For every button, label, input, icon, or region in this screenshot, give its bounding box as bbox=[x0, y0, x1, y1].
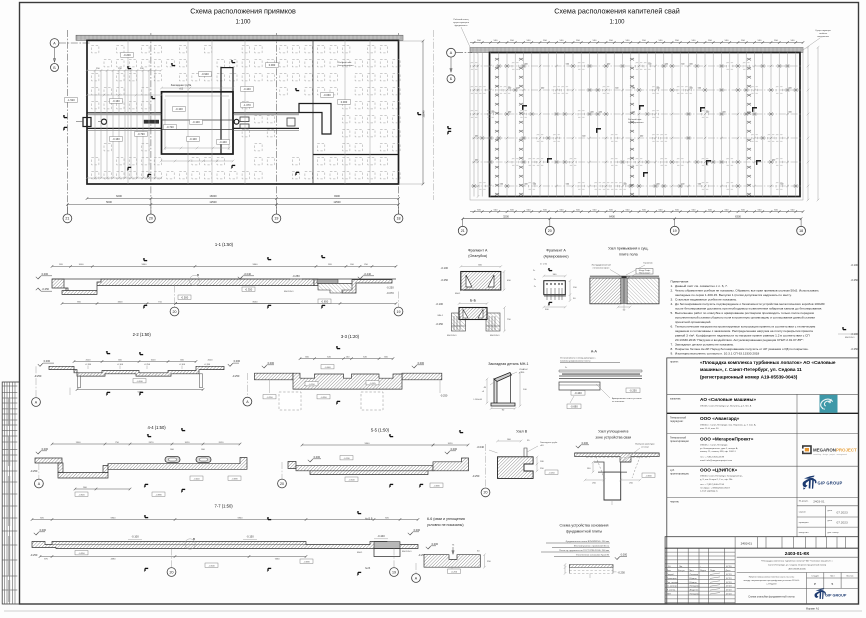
svg-text:500: 500 bbox=[640, 136, 643, 138]
dim line row 2 bbox=[67, 204, 398, 206]
right plan outline thick bbox=[490, 53, 801, 197]
А-А bars bbox=[562, 374, 640, 375]
svg-text:-0.440: -0.440 bbox=[364, 272, 372, 276]
svg-text:5-5 (1:50): 5-5 (1:50) bbox=[371, 428, 390, 433]
svg-text:-0.100: -0.100 bbox=[179, 364, 186, 366]
svg-text:-0.040: -0.040 bbox=[244, 272, 252, 276]
svg-text:500: 500 bbox=[566, 64, 569, 66]
trench left circle bbox=[101, 119, 106, 124]
svg-text:Лебедева: Лебедева bbox=[690, 594, 701, 596]
section 1-1 level marks bbox=[36, 277, 40, 279]
svg-text:между сверхмощными центрифугам: между сверхмощными центрифугами устан-ми… bbox=[744, 579, 800, 582]
svg-text:выпустил: выпустил bbox=[799, 532, 809, 534]
svg-text:суб.: суб. bbox=[670, 468, 675, 472]
svg-text:-0.940: -0.940 bbox=[201, 72, 209, 76]
svg-text:нагружение: нагружение bbox=[817, 36, 830, 38]
svg-text:не показано: не показано bbox=[612, 401, 625, 403]
svg-text:равной 3 т/м². Коэффициент над: равной 3 т/м². Коэффициент надежности по… bbox=[675, 334, 810, 338]
svg-text:Кол.уч: Кол.уч bbox=[678, 570, 685, 572]
section 1-1 slab hatched body bbox=[52, 279, 314, 294]
svg-text:2-2 (1:50): 2-2 (1:50) bbox=[133, 332, 152, 337]
svg-text:фундамента: фундамента bbox=[455, 24, 468, 27]
svg-text:1020: 1020 bbox=[185, 442, 191, 444]
svg-text:-1.070: -1.070 bbox=[243, 103, 251, 107]
стадия лист листов bbox=[823, 573, 825, 589]
svg-text:0.000: 0.000 bbox=[418, 361, 425, 365]
axis 18 vertical dash-dot bbox=[398, 33, 400, 214]
sparse tiny labels right plan bbox=[475, 64, 792, 186]
interior column lines bbox=[127, 40, 129, 184]
svg-text:-0.070: -0.070 bbox=[386, 291, 394, 295]
svg-text:-0.920: -0.920 bbox=[78, 494, 85, 496]
svg-text:помещ. 11, помещ. 636, оф. 100: помещ. 11, помещ. 636, оф. 1002-1 bbox=[700, 450, 736, 453]
svg-text:Фрагмент А: Фрагмент А bbox=[468, 249, 488, 253]
svg-text:21: 21 bbox=[461, 229, 465, 233]
армирование cut symbols bbox=[548, 268, 550, 271]
section 3-3 left thin slab bbox=[255, 373, 294, 380]
left edge pit opening bbox=[83, 118, 91, 127]
svg-text:-0.250: -0.250 bbox=[851, 278, 859, 282]
svg-text:196105, Санкт-Петербург, ул. В: 196105, Санкт-Петербург, ул. Ватутина, д… bbox=[700, 405, 752, 408]
svg-text:0.000: 0.000 bbox=[451, 447, 458, 451]
узел примыкания drawing bbox=[590, 278, 621, 304]
svg-text:-0.440: -0.440 bbox=[574, 391, 582, 395]
svg-text:Узел уплощения в: Узел уплощения в bbox=[598, 430, 628, 434]
svg-text:0.000: 0.000 bbox=[432, 542, 439, 546]
existing foundation hatched band (top) bbox=[76, 35, 403, 40]
svg-text:-0.440: -0.440 bbox=[243, 87, 251, 91]
title block outer bbox=[667, 358, 859, 604]
svg-text:GIP GROUP: GIP GROUP bbox=[825, 594, 847, 598]
svg-text:13840: 13840 bbox=[422, 110, 426, 118]
svg-text:-0.250: -0.250 bbox=[851, 347, 859, 351]
svg-text:заданием и согласованы с заказ: заданием и согласованы с заказчиком. Рас… bbox=[675, 329, 813, 333]
svg-text:L100х10: L100х10 bbox=[474, 399, 483, 401]
svg-text:Технологические нагрузки на пр: Технологические нагрузки на проектируемы… bbox=[675, 325, 815, 329]
svg-text:№ Б Б: № Б Б bbox=[365, 517, 373, 521]
svg-text:Выполнение работ по опалубке и: Выполнение работ по опалубке и армирован… bbox=[675, 311, 814, 315]
svg-text:2т: 2т bbox=[533, 270, 535, 272]
svg-text:9.: 9. bbox=[671, 352, 674, 356]
svg-text:500: 500 bbox=[780, 184, 783, 186]
section 3-3 dims bbox=[300, 358, 393, 360]
svg-text:1300: 1300 bbox=[76, 442, 82, 444]
svg-text:9300: 9300 bbox=[334, 194, 340, 198]
svg-text:0.000: 0.000 bbox=[40, 528, 47, 532]
svg-text:-0.690: -0.690 bbox=[570, 404, 578, 408]
svg-text:плите пола: плите пола bbox=[619, 253, 638, 257]
section 3-3 pile legs dashed bbox=[279, 392, 301, 410]
section 2-2 dims below bbox=[77, 389, 203, 391]
svg-text:фундаментной плиты: фундаментной плиты bbox=[566, 530, 603, 534]
left margin table bbox=[2, 382, 19, 604]
svg-text:500: 500 bbox=[533, 184, 536, 186]
svg-text:закладные по серии 1.400-15. В: закладные по серии 1.400-15. Выпуски 1 (… bbox=[675, 293, 792, 297]
svg-text:после бетонирования доставить: после бетонирования доставить при необхо… bbox=[675, 306, 822, 310]
svg-text:07.23: 07.23 bbox=[726, 578, 732, 580]
svg-text:-0.250: -0.250 bbox=[618, 571, 626, 575]
4-4 left pit walls/floor bbox=[58, 463, 63, 473]
svg-text:Примечания: Примечания bbox=[671, 279, 689, 283]
svg-text:6.: 6. bbox=[671, 325, 674, 329]
dense marker columns bbox=[495, 58, 751, 195]
svg-text:Песок ср. крупности по ГОСТ 87: Песок ср. крупности по ГОСТ 8736-2014 t … bbox=[559, 549, 609, 552]
Б-Б pile stubs bbox=[454, 316, 495, 330]
7-7 mid lines bbox=[52, 544, 306, 546]
svg-text:Узел примыкания к сущ.: Узел примыкания к сущ. bbox=[608, 247, 648, 251]
svg-text:-0.250: -0.250 bbox=[386, 285, 394, 289]
svg-text:-0.250: -0.250 bbox=[629, 388, 637, 392]
svg-text:т63: т63 bbox=[179, 87, 184, 91]
svg-text:-0.690: -0.690 bbox=[433, 485, 440, 487]
svg-text:6300: 6300 bbox=[735, 215, 741, 219]
Г-shaped pit right bbox=[299, 104, 331, 135]
svg-text:Данный лист см. совместно с л.: Данный лист см. совместно с л. 6, 7. bbox=[675, 284, 728, 288]
section 3-3 axis bubble А bbox=[246, 373, 248, 396]
trench thick middle segment bbox=[144, 120, 159, 124]
svg-text:5940: 5940 bbox=[253, 264, 259, 266]
section 7-7 cut marks bbox=[144, 515, 146, 518]
section 5-5 dims bbox=[302, 444, 433, 446]
right small boxes bbox=[240, 117, 249, 122]
svg-text:500: 500 bbox=[508, 88, 511, 90]
svg-text:бетонирования: бетонирования bbox=[338, 65, 354, 67]
svg-text:А-А: А-А bbox=[591, 350, 598, 354]
left side vertical dims right plan bbox=[477, 53, 479, 197]
svg-text:1:100: 1:100 bbox=[235, 20, 251, 26]
svg-text:бетонирования: бетонирования bbox=[628, 122, 644, 124]
svg-text:500: 500 bbox=[500, 184, 503, 186]
svg-text:500: 500 bbox=[698, 88, 701, 90]
pit big rectangle bbox=[162, 92, 234, 154]
svg-text:Формат А1: Формат А1 bbox=[806, 607, 820, 611]
trench dim verticals bbox=[95, 70, 155, 178]
section 4-4 levels bbox=[36, 452, 40, 454]
section 7-7 hatched body bbox=[32, 542, 418, 549]
svg-text:машины», г. Санкт-Петербург, у: машины», г. Санкт-Петербург, ул. Седова … bbox=[700, 366, 802, 372]
svg-text:Схема опалубки фундаментной пл: Схема опалубки фундаментной плиты bbox=[748, 595, 795, 599]
svg-text:190000, г. Санкт-Петербург, пе: 190000, г. Санкт-Петербург, пер. Пирогов… bbox=[700, 424, 756, 427]
svg-text:Устанавливать в обход арматуры: Устанавливать в обход арматуры с. bbox=[560, 358, 597, 360]
svg-text:20: 20 bbox=[173, 310, 177, 314]
bottom dim lines right plan bbox=[470, 211, 803, 213]
svg-text:4380: 4380 bbox=[111, 558, 117, 560]
svg-text:проект:: проект: bbox=[670, 361, 679, 364]
svg-text:12500: 12500 bbox=[209, 200, 217, 204]
svg-text:ГИП: ГИП bbox=[667, 594, 672, 596]
fragment А опалубка drawing bbox=[461, 272, 501, 291]
svg-text:-1.520: -1.520 bbox=[67, 98, 75, 102]
svg-text:Герметик: Герметик bbox=[643, 263, 652, 265]
svg-text:19: 19 bbox=[397, 310, 401, 314]
svg-text:8060: 8060 bbox=[253, 301, 259, 303]
inner wall line right part bbox=[313, 154, 399, 156]
section 7-7 levels bbox=[34, 533, 38, 535]
svg-text:5940: 5940 bbox=[365, 443, 371, 445]
section 7-7 dims above bbox=[32, 519, 418, 521]
svg-text:Узел В: Узел В bbox=[516, 430, 528, 434]
svg-text:4-4 (1:50): 4-4 (1:50) bbox=[148, 425, 167, 430]
svg-text:-0.690: -0.690 bbox=[231, 478, 238, 480]
section 2-2 level marks bbox=[38, 364, 42, 366]
svg-text:-0.500: -0.500 bbox=[136, 381, 143, 383]
svg-text:-0.250: -0.250 bbox=[232, 374, 240, 378]
top dim line right plan bbox=[470, 42, 803, 44]
detail circle Б bbox=[189, 275, 199, 285]
svg-text:Рабочий шов: Рабочий шов bbox=[338, 61, 352, 64]
svg-text:-0.500: -0.500 bbox=[181, 295, 189, 299]
svg-text:-0.500: -0.500 bbox=[208, 565, 215, 567]
svg-text:Закладная труба: Закладная труба bbox=[540, 442, 558, 444]
section 1-1 axis bubbles bbox=[174, 286, 176, 308]
svg-text:190000, Санкт-Петербург, Загор: 190000, Санкт-Петербург, Загородный пр., bbox=[700, 475, 743, 478]
svg-text:8.: 8. bbox=[671, 347, 674, 351]
svg-text:МН-1: МН-1 bbox=[455, 293, 461, 295]
svg-text:МН 105-1: МН 105-1 bbox=[402, 551, 412, 553]
svg-text:Выпуски арматуры: Выпуски арматуры bbox=[635, 444, 655, 446]
svg-text:тел./факс: +7(800)2000-09-19: тел./факс: +7(800)2000-09-19 bbox=[700, 486, 730, 489]
svg-text:19: 19 bbox=[673, 229, 677, 233]
section 1-1 dims above bbox=[52, 265, 396, 267]
svg-text:-0.040: -0.040 bbox=[324, 367, 331, 369]
slab lines bbox=[575, 452, 660, 454]
svg-text:Дата: Дата bbox=[726, 570, 732, 572]
svg-text:0.000: 0.000 bbox=[414, 528, 421, 532]
fragment А армирование drawing bbox=[544, 281, 566, 295]
7-7 detail circle В bbox=[185, 539, 195, 549]
svg-text:Закладная труба: Закладная труба bbox=[171, 83, 192, 87]
joint gap bbox=[621, 278, 627, 304]
svg-text:(Армирование): (Армирование) bbox=[543, 255, 568, 259]
elevation labels bbox=[121, 53, 134, 58]
svg-text:№док: №док bbox=[700, 569, 706, 572]
svg-text:7460: 7460 bbox=[275, 558, 281, 560]
svg-text:Фундаментная плита В25/W8/F50: Фундаментная плита В25/W8/F50 t 250 мм bbox=[566, 540, 610, 543]
section 4-4 dims bbox=[52, 443, 240, 445]
svg-text:МН 105-1: МН 105-1 bbox=[447, 335, 457, 337]
svg-text:Уплотненное основание Ку=0.95: Уплотненное основание Ку=0.95 bbox=[576, 555, 610, 557]
svg-text:-0.440: -0.440 bbox=[219, 140, 227, 144]
svg-text:-0.650: -0.650 bbox=[321, 299, 329, 303]
axis bubble А right bbox=[447, 48, 456, 57]
svg-text:«Площадка комплекса турбинных: «Площадка комплекса турбинных лопаток» А… bbox=[700, 359, 836, 365]
svg-text:-0.250: -0.250 bbox=[42, 287, 50, 291]
мегарон logo bbox=[802, 446, 857, 456]
svg-text:Схема расположения приямков: Схема расположения приямков bbox=[190, 7, 296, 16]
svg-text:-0.350: -0.350 bbox=[78, 553, 85, 555]
svg-text:Р: Р bbox=[814, 582, 816, 586]
svg-text:-0.630: -0.630 bbox=[645, 475, 652, 477]
svg-text:-0.250: -0.250 bbox=[436, 322, 444, 326]
trench continues right of pit bbox=[233, 112, 299, 114]
svg-text:18: 18 bbox=[397, 217, 401, 221]
svg-text:-0.500: -0.500 bbox=[348, 479, 355, 481]
grid bubbles bottom (left plan) bbox=[63, 214, 72, 223]
horizontal dash-dot rows bbox=[472, 66, 801, 186]
svg-text:500: 500 bbox=[541, 88, 544, 90]
row dividers bbox=[667, 393, 859, 395]
svg-text:-0.250: -0.250 bbox=[440, 394, 448, 398]
svg-text:В: В bbox=[197, 273, 199, 277]
svg-text:Лебедева: Лебедева bbox=[690, 586, 701, 588]
svg-text:0.000: 0.000 bbox=[269, 63, 276, 67]
svg-text:-0.100: -0.100 bbox=[189, 137, 197, 141]
svg-text:проектировщик:: проектировщик: bbox=[670, 473, 690, 476]
svg-text:2403-01-КК: 2403-01-КК bbox=[785, 551, 810, 556]
svg-text:GIP GROUP: GIP GROUP bbox=[818, 480, 843, 485]
svg-text:дата: дата bbox=[828, 520, 833, 522]
узел В axis bbox=[485, 444, 487, 487]
svg-text:ул. Новорощинская, дом 4, лите: ул. Новорощинская, дом 4, литера А, bbox=[700, 447, 738, 450]
svg-text:проектной организацией.: проектной организацией. bbox=[675, 320, 711, 324]
svg-text:2403-01: 2403-01 bbox=[741, 541, 753, 545]
svg-text:-0.160: -0.160 bbox=[112, 99, 120, 103]
svg-text:чертеж:: чертеж: bbox=[670, 501, 679, 504]
right plan thin outer rect bbox=[470, 47, 803, 200]
svg-text:-0.350: -0.350 bbox=[320, 397, 327, 399]
svg-text:07.23: 07.23 bbox=[726, 586, 732, 588]
axis line А horizontal bbox=[59, 42, 90, 44]
stamp project name cell bbox=[737, 572, 859, 574]
узел уплощения drawing bbox=[575, 453, 660, 462]
svg-text:-0.060: -0.060 bbox=[323, 93, 331, 97]
axis bubble Б right bbox=[447, 75, 455, 83]
cut marks plan 1 bbox=[127, 66, 129, 69]
svg-text:20.13330.2016 “Нагрузки и возд: 20.13330.2016 “Нагрузки и воздействия. А… bbox=[675, 338, 804, 342]
svg-text:500: 500 bbox=[615, 88, 618, 90]
svg-text:свайное: свайное bbox=[819, 32, 828, 35]
svg-text:Лист: Лист bbox=[689, 570, 694, 572]
svg-text:16000: 16000 bbox=[209, 194, 217, 198]
svg-text:-0.350: -0.350 bbox=[245, 287, 253, 291]
svg-text:Санкт-Петербург, ул. Седова 11: Санкт-Петербург, ул. Седова 11 (регистра… bbox=[768, 564, 827, 567]
svg-text:500: 500 bbox=[690, 88, 693, 90]
А-А slab lines bbox=[559, 370, 642, 372]
svg-text:Н. контр.: Н. контр. bbox=[667, 590, 676, 592]
svg-text:2т: 2т bbox=[565, 367, 567, 369]
fragment Б-Б drawing bbox=[459, 308, 487, 320]
svg-text:6-6 (сваи и уплощения: 6-6 (сваи и уплощения bbox=[427, 517, 465, 521]
svg-text:Рук. группы: Рук. группы bbox=[667, 582, 679, 584]
svg-text:500: 500 bbox=[475, 160, 478, 162]
svg-text:email: info@megaronproject.co: email: info@megaronproject.com bbox=[700, 459, 732, 462]
section 2-2 legs bbox=[78, 376, 81, 388]
svg-text:2т: 2т bbox=[534, 286, 536, 288]
pile bbox=[604, 472, 621, 500]
svg-text:с-ПТД-1Ю: с-ПТД-1Ю bbox=[766, 584, 777, 586]
svg-text:-0.200: -0.200 bbox=[123, 53, 131, 57]
axis bubble Б bbox=[51, 64, 59, 72]
axis 19 vertical dash-dot bbox=[275, 33, 277, 214]
svg-text:заказчик:: заказчик: bbox=[670, 398, 681, 401]
svg-text:3.: 3. bbox=[671, 297, 674, 301]
section 5-5 cut marks bbox=[389, 434, 391, 437]
svg-text:проверил: проверил bbox=[799, 522, 809, 524]
svg-text:-0.790: -0.790 bbox=[137, 132, 145, 136]
axis vertical fold line between plans bbox=[433, 30, 435, 200]
svg-text:07.20: 07.20 bbox=[726, 566, 732, 568]
svg-text:-0.720: -0.720 bbox=[166, 125, 174, 129]
svg-text:0.000: 0.000 bbox=[582, 441, 589, 445]
stamp left sig table bbox=[676, 548, 678, 604]
svg-text:500: 500 bbox=[475, 136, 478, 138]
svg-text:500: 500 bbox=[681, 64, 684, 66]
svg-text:5.: 5. bbox=[671, 311, 674, 315]
axis bubble А bbox=[50, 39, 59, 48]
svg-text:пом. 11-Н, пом. 30: пом. 11-Н, пом. 30 bbox=[700, 428, 719, 430]
svg-text:-0.100: -0.100 bbox=[117, 364, 124, 366]
svg-text:Юдина: Юдина bbox=[690, 578, 698, 580]
svg-text:6400: 6400 bbox=[609, 215, 615, 219]
svg-text:пенополистирол: пенополистирол bbox=[593, 268, 610, 270]
svg-text:Юдина: Юдина bbox=[690, 582, 698, 584]
svg-text:5000: 5000 bbox=[106, 200, 112, 204]
existing hatched band top right plan bbox=[470, 47, 803, 52]
svg-text:-0.100: -0.100 bbox=[192, 120, 200, 124]
svg-text:МН 105-1: МН 105-1 bbox=[845, 337, 855, 339]
row ladder ticks bbox=[473, 65, 789, 187]
gipgroup logo bottom bbox=[814, 588, 846, 599]
svg-text:500: 500 bbox=[525, 184, 528, 186]
section 1-1 dims below bbox=[62, 303, 300, 305]
svg-text:1020: 1020 bbox=[151, 359, 157, 361]
svg-text:-0.100: -0.100 bbox=[131, 535, 139, 539]
svg-text:-0.190: -0.190 bbox=[343, 458, 350, 460]
svg-text:Армирование плиты условно: Армирование плиты условно bbox=[612, 397, 642, 400]
plan outline (thick) bbox=[87, 40, 399, 184]
svg-text:Разраб.: Разраб. bbox=[667, 574, 675, 576]
svg-text:20: 20 bbox=[548, 229, 552, 233]
section 7-7 axis bubbles bbox=[171, 549, 173, 568]
svg-text:тел.: +7 (812) 640-47-56: тел.: +7 (812) 640-47-56 bbox=[700, 484, 725, 486]
svg-text:500: 500 bbox=[632, 88, 635, 90]
svg-text:2020: 2020 bbox=[86, 359, 92, 361]
svg-text:190005, г. Санкт-Петербург,: 190005, г. Санкт-Петербург, bbox=[700, 445, 728, 447]
stamp top strip bbox=[665, 537, 858, 549]
svg-text:500: 500 bbox=[657, 88, 660, 90]
svg-text:-0.250: -0.250 bbox=[451, 571, 458, 573]
svg-text:7.: 7. bbox=[671, 343, 674, 347]
svg-text:нижним армированием плиты: нижним армированием плиты bbox=[560, 361, 591, 363]
svg-text:-0.100: -0.100 bbox=[851, 263, 859, 267]
svg-text:0.000: 0.000 bbox=[268, 361, 275, 365]
section 4-4 axis bubble А bbox=[38, 463, 40, 479]
svg-text:АО «Силовые машины»: АО «Силовые машины» bbox=[700, 397, 756, 402]
svg-text:21: 21 bbox=[65, 217, 69, 221]
black corner markers right plan bbox=[522, 105, 527, 110]
axis arrow А-Б bbox=[54, 48, 56, 62]
svg-text:500: 500 bbox=[690, 64, 693, 66]
svg-text:19: 19 bbox=[392, 570, 396, 574]
svg-text:Б-Б: Б-Б bbox=[470, 299, 477, 303]
svg-text:07.23: 07.23 bbox=[726, 594, 732, 596]
svg-text:12500: 12500 bbox=[333, 200, 341, 204]
svg-text:Чехлы обрамления усебков не по: Чехлы обрамления усебков не показаны. Об… bbox=[675, 288, 819, 292]
svg-text:-0.165: -0.165 bbox=[369, 383, 376, 385]
чертеж fields bbox=[797, 505, 859, 507]
svg-text:1-1 (1:50): 1-1 (1:50) bbox=[215, 242, 234, 247]
gipgroup logo mid bbox=[803, 476, 817, 490]
section 5-5 axis bubble 20 bbox=[281, 462, 283, 479]
svg-text:Нижняя немассивная плитная час: Нижняя немассивная плитная часть на соты bbox=[749, 577, 795, 579]
section 2-2 stepped slab bbox=[49, 366, 224, 376]
axis 21 vertical dash-dot bbox=[66, 30, 68, 214]
section 3-3 central block bbox=[293, 373, 402, 389]
svg-text:Генеральный: Генеральный bbox=[670, 416, 687, 420]
svg-text:07.2023: 07.2023 bbox=[837, 521, 848, 525]
section 1-1 right pit hatched bbox=[318, 284, 352, 294]
small pit marks bbox=[287, 118, 295, 126]
